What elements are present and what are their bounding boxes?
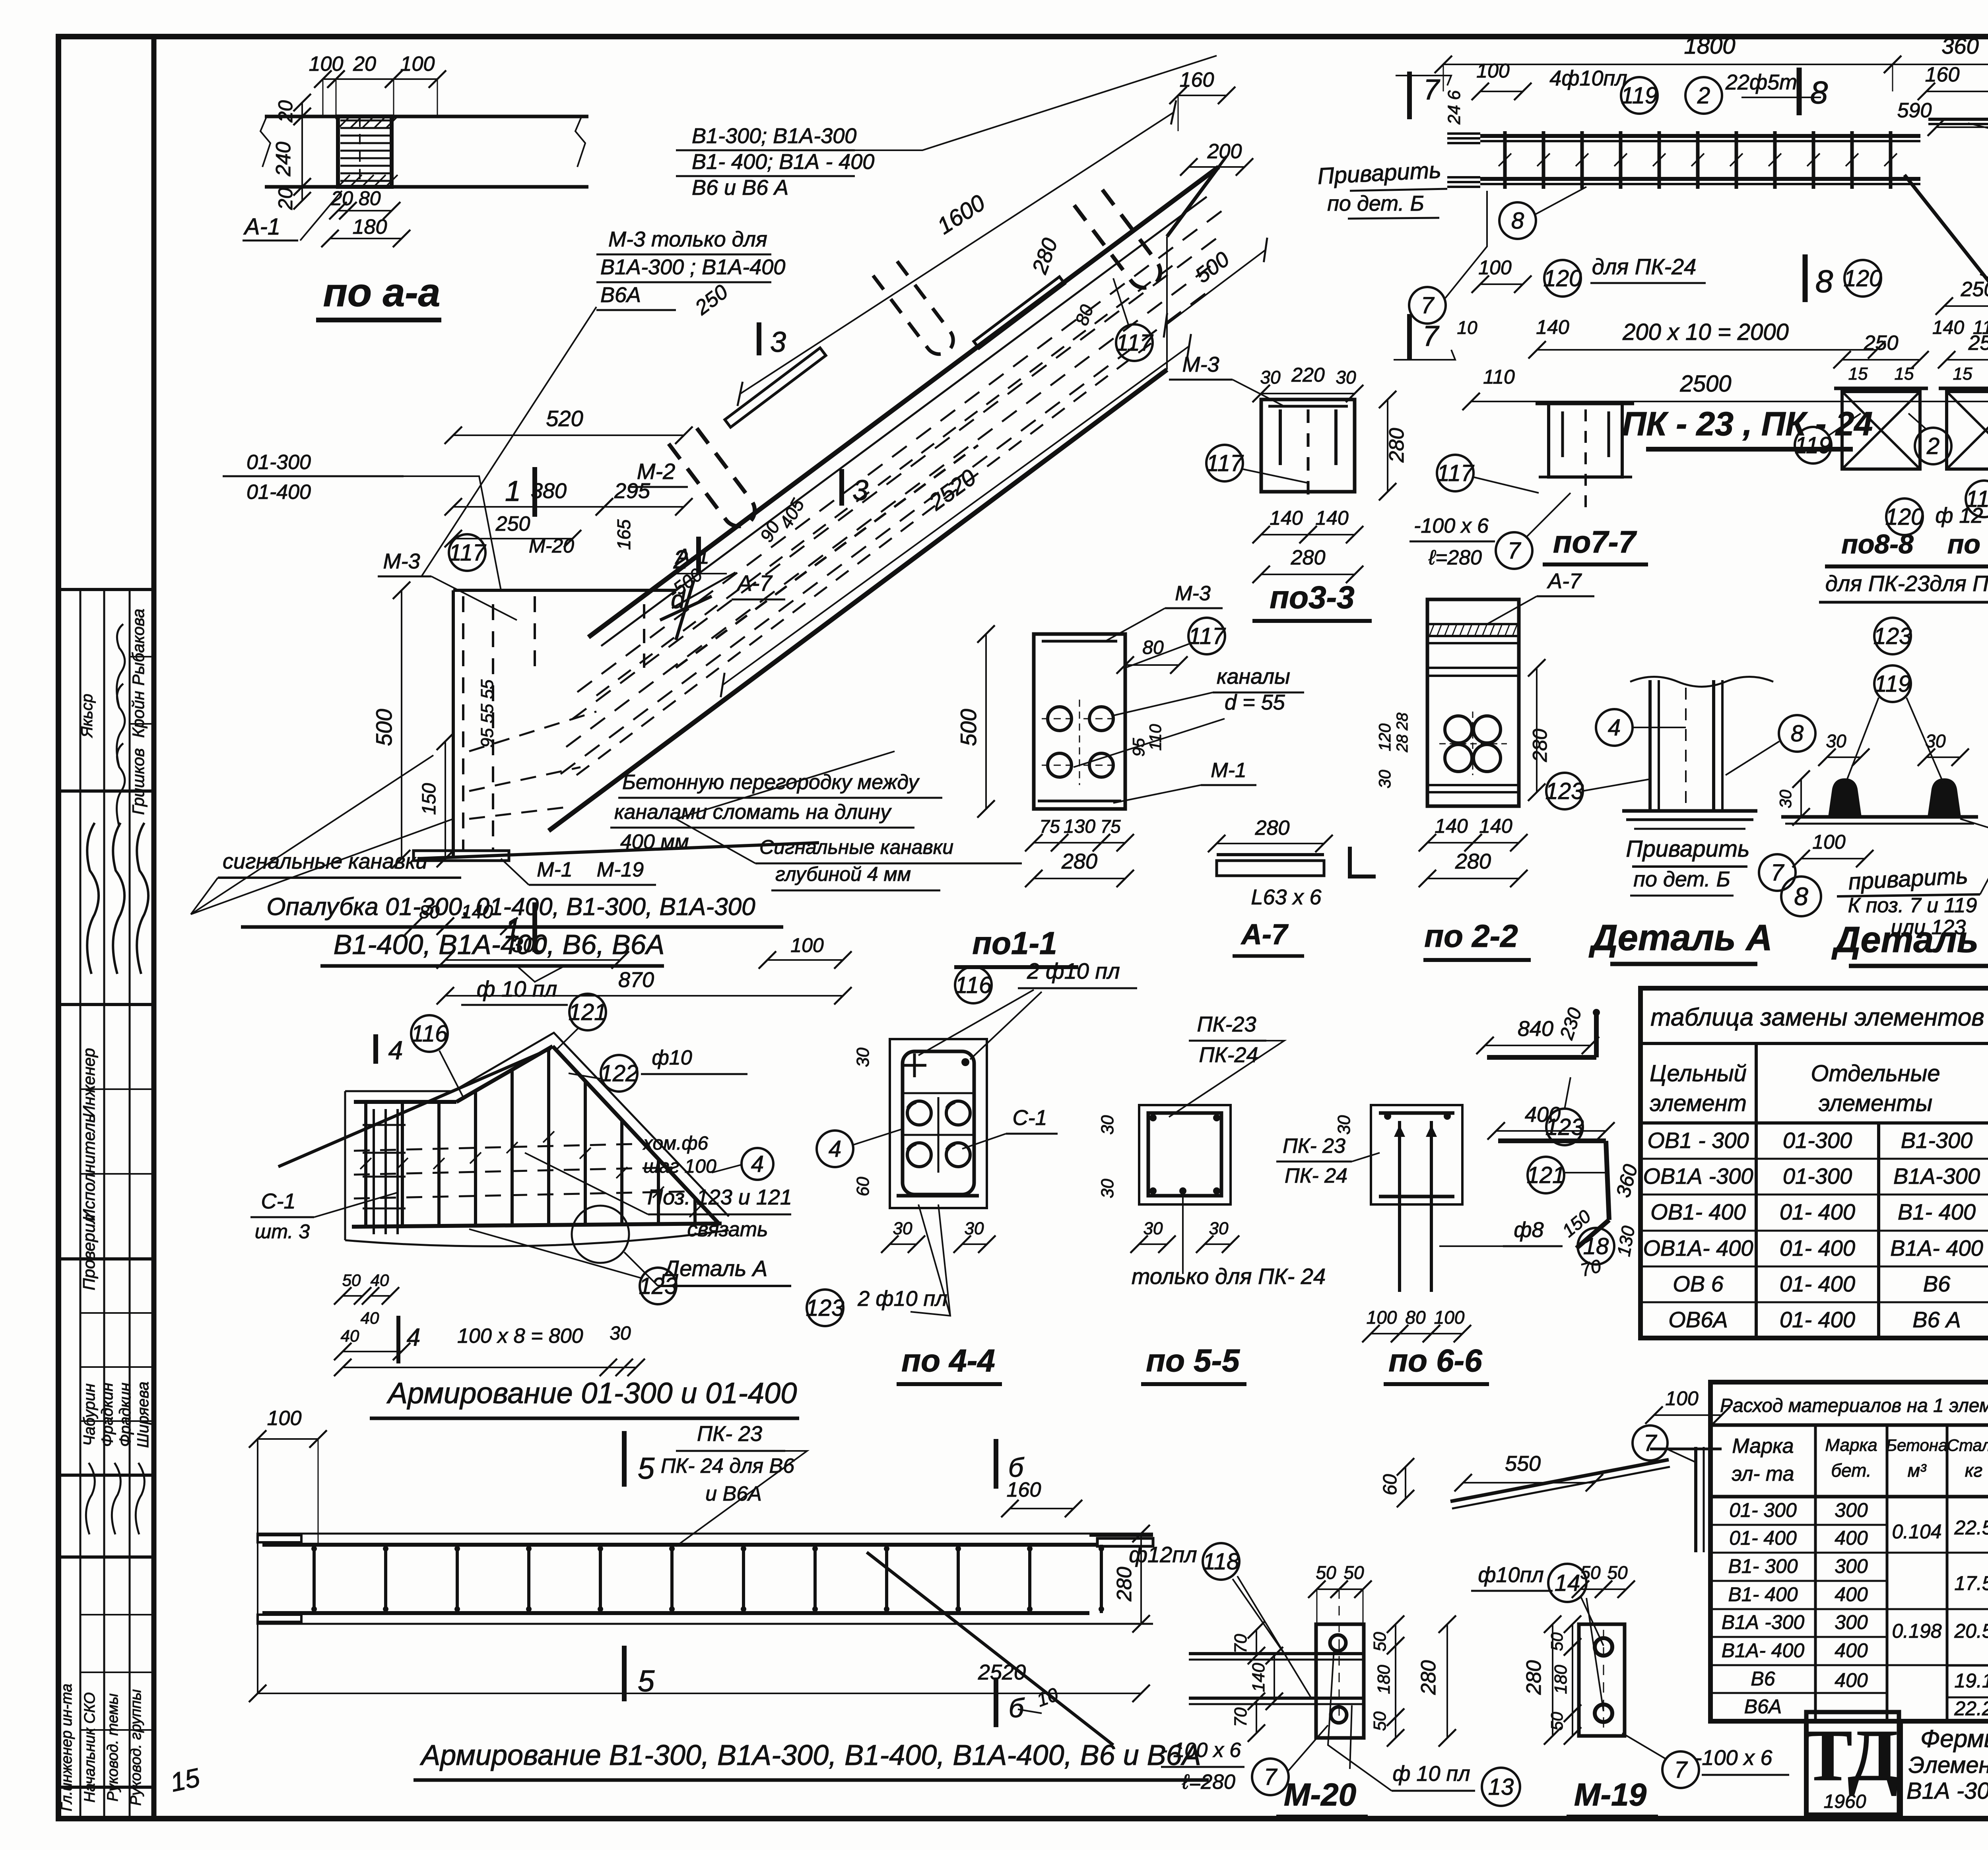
M-20 horizontal bars — [1189, 1652, 1363, 1655]
svg-text:В1-300; В1А-300: В1-300; В1А-300 — [692, 124, 856, 148]
svg-text:0.104: 0.104 — [1892, 1520, 1941, 1543]
section po8-8 (PK-23) box — [1842, 392, 1920, 469]
sidebar signatures — [117, 624, 125, 708]
svg-text:1: 1 — [505, 475, 521, 507]
section mark 3 on diagonal lower — [839, 469, 844, 506]
svg-text:01- 400: 01- 400 — [1780, 1271, 1855, 1296]
svg-text:Марка: Марка — [1732, 1435, 1794, 1458]
circle 122 + f10 — [601, 1055, 637, 1092]
po4-4 2f10pl bottom + circle 123 — [807, 1290, 843, 1326]
svg-text:30: 30 — [1260, 367, 1281, 388]
svg-text:4: 4 — [829, 1136, 841, 1162]
svg-text:М-3: М-3 — [1175, 582, 1211, 605]
svg-text:20: 20 — [353, 52, 376, 76]
svg-text:118: 118 — [1203, 1549, 1239, 1575]
svg-text:1960: 1960 — [1824, 1791, 1866, 1812]
svg-text:140: 140 — [1435, 815, 1468, 837]
svg-text:глубиной 4 мм: глубиной 4 мм — [775, 863, 911, 885]
bent bar 121 (400/360/150/130/70) — [1498, 1138, 1606, 1143]
svg-text:по а-а: по а-а — [323, 270, 440, 315]
svg-text:ф8: ф8 — [1514, 1218, 1543, 1242]
section po2-2 box — [1427, 599, 1519, 806]
svg-text:по 6-6: по 6-6 — [1388, 1343, 1482, 1378]
diagonal beam top edge — [588, 167, 1219, 637]
svg-text:250: 250 — [691, 280, 732, 320]
svg-text:360: 360 — [1612, 1162, 1642, 1200]
svg-text:Гришков: Гришков — [129, 748, 148, 815]
svg-text:300: 300 — [1835, 1555, 1868, 1577]
svg-text:7: 7 — [1508, 538, 1522, 564]
svg-text:140: 140 — [1932, 317, 1964, 338]
svg-text:В1А-300 ; В1А-400: В1А-300 ; В1А-400 — [600, 255, 785, 279]
PK beam rungs — [1503, 131, 1507, 189]
svg-text:1600: 1600 — [933, 190, 990, 239]
long beam right corner angle — [1089, 1534, 1153, 1537]
svg-text:100: 100 — [1478, 256, 1512, 279]
svg-text:13: 13 — [1488, 1774, 1514, 1800]
svg-text:С-1: С-1 — [261, 1189, 295, 1213]
svg-text:180: 180 — [1374, 1665, 1394, 1694]
svg-text:280: 280 — [1255, 816, 1290, 840]
svg-text:01- 400: 01- 400 — [1780, 1199, 1855, 1224]
svg-text:100 х 8 = 800: 100 х 8 = 800 — [457, 1324, 583, 1348]
svg-text:180: 180 — [353, 215, 387, 239]
svg-text:100: 100 — [1665, 1387, 1699, 1410]
po3-3 dim 280 right — [1387, 399, 1388, 492]
svg-text:кг: кг — [1965, 1460, 1982, 1481]
dim 80 140 — [414, 925, 445, 927]
detail A circle 4 — [1596, 709, 1633, 746]
armir 01 dashed horizontals — [354, 1144, 650, 1151]
svg-text:400: 400 — [1835, 1527, 1868, 1549]
opalubka node: diagonal dashed stubs — [643, 604, 645, 676]
armir 01 bottom chord — [352, 1224, 722, 1227]
armir 01 left mesh C-1 — [373, 1109, 375, 1234]
svg-text:50: 50 — [1607, 1562, 1628, 1583]
svg-text:2 ф10 пл: 2 ф10 пл — [1027, 958, 1120, 983]
upper weld plate on diagonal (pos 13) — [725, 348, 826, 427]
svg-text:19.1: 19.1 — [1954, 1670, 1988, 1692]
po4-4 circle 4 + C-1 — [817, 1131, 853, 1167]
po4-4 2f10pl top + circle 116 — [955, 967, 992, 1003]
svg-text:100: 100 — [1476, 60, 1510, 82]
svg-text:100: 100 — [1434, 1307, 1465, 1328]
po2-2 channels (4 circles clustered) — [1445, 716, 1472, 743]
svg-text:50: 50 — [1370, 1711, 1390, 1731]
long beam rungs — [313, 1545, 316, 1613]
M-19 plate — [1579, 1624, 1625, 1736]
po4-4 bottom bar — [897, 1194, 979, 1198]
svg-text:ℓ=280: ℓ=280 — [1182, 1770, 1235, 1794]
detail A: squiggle top — [1630, 677, 1773, 687]
svg-text:150: 150 — [419, 783, 440, 815]
svg-text:121: 121 — [1527, 1162, 1565, 1188]
svg-text:7: 7 — [1771, 860, 1785, 886]
detail A circle zone — [572, 1206, 629, 1263]
svg-text:120: 120 — [1844, 266, 1882, 291]
svg-text:4: 4 — [388, 1036, 403, 1065]
svg-text:Инженер: Инженер — [80, 1048, 98, 1117]
svg-text:Чабурин: Чабурин — [81, 1383, 98, 1446]
svg-text:300: 300 — [1835, 1611, 1868, 1633]
detail B: base plate line — [1781, 815, 1978, 819]
po3-3 circle 117 — [1206, 445, 1243, 481]
svg-text:590: 590 — [1897, 99, 1932, 122]
svg-text:5: 5 — [638, 1452, 655, 1485]
dim 100 20 100 above po a-a — [323, 78, 336, 80]
svg-text:130: 130 — [1613, 1224, 1639, 1258]
svg-text:250: 250 — [495, 512, 530, 535]
svg-text:160: 160 — [1925, 63, 1960, 86]
long beam bottom chord bar — [262, 1611, 1089, 1615]
long beam left end plates — [258, 1535, 301, 1542]
svg-text:360: 360 — [1941, 33, 1978, 58]
svg-text:Поз. 123 и 121: Поз. 123 и 121 — [647, 1185, 792, 1209]
svg-text:15: 15 — [1953, 364, 1972, 384]
svg-text:7: 7 — [1264, 1764, 1278, 1790]
opalubka node: top horizontal line — [453, 589, 676, 592]
svg-text:200 х 10 = 2000: 200 х 10 = 2000 — [1622, 319, 1789, 345]
opalubka node: inner dashed verticals — [462, 596, 464, 851]
svg-text:по 5-5: по 5-5 — [1146, 1343, 1240, 1378]
svg-text:22.2: 22.2 — [1954, 1697, 1988, 1720]
svg-text:117: 117 — [1116, 330, 1154, 356]
svg-text:01- 400: 01- 400 — [1780, 1235, 1855, 1260]
svg-text:В1- 400; В1А - 400: В1- 400; В1А - 400 — [692, 150, 874, 174]
svg-text:К поз. 7 и 119: К поз. 7 и 119 — [1848, 894, 1977, 917]
svg-text:и В6А: и В6А — [705, 1482, 762, 1505]
svg-text:122: 122 — [600, 1061, 639, 1086]
svg-text:В6: В6 — [1923, 1271, 1951, 1296]
svg-text:8: 8 — [1815, 264, 1833, 299]
svg-text:30: 30 — [1336, 367, 1356, 388]
svg-text:200: 200 — [1207, 140, 1242, 163]
svg-text:119: 119 — [1874, 671, 1911, 697]
svg-text:70: 70 — [1231, 1707, 1250, 1727]
svg-text:ТД: ТД — [1803, 1715, 1898, 1796]
angle L63x6 sketch — [1217, 853, 1324, 856]
long beam top edge — [256, 1533, 1153, 1535]
svg-text:В6 А: В6 А — [1912, 1307, 1961, 1332]
dim 20 80 under po a-a — [338, 210, 348, 211]
armir 01 falling top chord — [553, 1046, 719, 1224]
svg-text:100: 100 — [267, 1407, 302, 1430]
po4-4 inner stirrup — [903, 1051, 974, 1195]
svg-text:ОВ1- 400: ОВ1- 400 — [1650, 1199, 1746, 1224]
svg-text:Начальник СКО: Начальник СКО — [82, 1692, 98, 1802]
svg-text:ℓ=280: ℓ=280 — [1428, 546, 1482, 569]
svg-text:117: 117 — [1437, 460, 1475, 486]
svg-text:А-7: А-7 — [736, 570, 773, 595]
section po5-5 outer box — [1139, 1105, 1231, 1204]
hooks (dashed U bars) in diagonal beam — [669, 425, 761, 533]
svg-text:123: 123 — [806, 1295, 845, 1321]
svg-text:ПК-23: ПК-23 — [1197, 1012, 1256, 1036]
long beam diagonal strike — [867, 1552, 1113, 1745]
svg-text:280: 280 — [1455, 849, 1491, 873]
svg-text:сигнальные канавки: сигнальные канавки — [223, 849, 427, 873]
dim 200 at top end — [1189, 166, 1244, 168]
section po4-4 outer box — [890, 1039, 987, 1208]
svg-text:м³: м³ — [1908, 1460, 1927, 1481]
dim 300 — [445, 959, 620, 961]
svg-text:60: 60 — [1380, 1474, 1401, 1495]
po8-8b circles — [1966, 481, 1988, 517]
svg-text:500: 500 — [956, 709, 981, 746]
svg-text:400: 400 — [1835, 1583, 1868, 1606]
svg-text:180: 180 — [1551, 1665, 1571, 1694]
section po a-a : beam top line — [265, 115, 588, 118]
svg-text:20 80: 20 80 — [330, 187, 381, 209]
svg-text:95: 95 — [1129, 738, 1148, 756]
svg-text:б: б — [1008, 1452, 1025, 1483]
po5-5 stirrup — [1148, 1113, 1221, 1196]
dim 1600 along beam — [728, 100, 1186, 406]
svg-text:50: 50 — [1547, 1632, 1566, 1651]
svg-text:М-2: М-2 — [637, 459, 675, 484]
title block frame — [1806, 1719, 1988, 1724]
svg-text:280: 280 — [1113, 1567, 1136, 1602]
svg-text:для ПК-24: для ПК-24 — [1592, 254, 1697, 279]
svg-text:24 6: 24 6 — [1444, 90, 1464, 125]
svg-text:В1А -300 , В1- 400 , В1А - 4: В1А -300 , В1- 400 , В1А - 400 , В6 , В6… — [1906, 1778, 1988, 1804]
svg-text:7: 7 — [1674, 1757, 1688, 1783]
svg-text:ф12пл: ф12пл — [1129, 1542, 1197, 1567]
svg-text:160: 160 — [1180, 68, 1214, 91]
diagonal beam end cap — [1167, 167, 1219, 237]
svg-text:120: 120 — [1375, 723, 1394, 751]
svg-text:2520: 2520 — [978, 1660, 1026, 1684]
dim 500 left side — [401, 590, 402, 859]
sidebar names 2 — [80, 1312, 154, 1314]
svg-text:М-3 только для: М-3 только для — [608, 227, 767, 251]
svg-text:бет.: бет. — [1831, 1460, 1872, 1481]
opalubka node: bottom line — [417, 843, 819, 859]
svg-text:М-19: М-19 — [597, 858, 644, 881]
svg-text:Приварить: Приварить — [1317, 157, 1442, 189]
svg-text:280: 280 — [1385, 428, 1408, 463]
circle 120 + dlya PK-24 — [1544, 260, 1581, 297]
svg-text:эл- та: эл- та — [1732, 1462, 1794, 1485]
svg-text:50: 50 — [1343, 1562, 1364, 1583]
svg-text:400: 400 — [1525, 1103, 1561, 1127]
svg-text:В1А -300: В1А -300 — [1722, 1611, 1805, 1633]
svg-text:L63 х 6: L63 х 6 — [1251, 885, 1322, 909]
svg-text:01-400: 01-400 — [247, 481, 311, 504]
dim 100 — [767, 959, 843, 961]
svg-text:7: 7 — [1423, 74, 1441, 106]
po4-4 channels — [907, 1101, 931, 1125]
long beam top chord bar — [262, 1543, 1097, 1547]
armir 01 section mark 4 top — [373, 1034, 378, 1064]
svg-text:20: 20 — [274, 100, 297, 123]
svg-text:840: 840 — [1518, 1017, 1553, 1041]
inner content border line — [151, 37, 157, 1819]
PK beam right corner angle — [1928, 118, 1988, 121]
M-20 plate — [1316, 1624, 1364, 1738]
svg-text:100: 100 — [400, 52, 435, 76]
svg-text:120: 120 — [1543, 266, 1582, 291]
dim 180 under po a-a — [330, 238, 402, 239]
svg-text:120: 120 — [1885, 504, 1924, 530]
svg-text:Элементы ферм 01-300, 01-400.: Элементы ферм 01-300, 01-400. В1-300, — [1908, 1752, 1988, 1778]
bent bar 123 (840/230) — [1487, 1055, 1596, 1060]
svg-text:Деталь Б: Деталь Б — [1831, 919, 1988, 960]
svg-text:Фрадкин: Фрадкин — [99, 1383, 116, 1447]
svg-text:300: 300 — [1835, 1499, 1868, 1521]
svg-text:ПК- 23: ПК- 23 — [1283, 1134, 1345, 1158]
svg-text:400: 400 — [1835, 1669, 1868, 1691]
svg-text:ф 12 пл: ф 12 пл — [1935, 504, 1988, 527]
svg-text:М-3: М-3 — [1182, 353, 1219, 376]
svg-text:2: 2 — [1697, 83, 1710, 109]
svg-text:100: 100 — [790, 934, 824, 956]
svg-text:7: 7 — [1644, 1430, 1658, 1456]
svg-text:-100 х 6: -100 х 6 — [1414, 514, 1489, 537]
svg-text:по дет. Б: по дет. Б — [1327, 192, 1424, 215]
svg-text:15: 15 — [168, 1763, 202, 1798]
svg-text:ОВ1А -300: ОВ1А -300 — [1643, 1164, 1753, 1189]
PK beam right diagonal strike (pos 16) — [1905, 175, 1988, 333]
section mark 3 on diagonal upper — [757, 322, 761, 355]
po2-2 top hatched strip — [1427, 623, 1519, 625]
svg-text:7: 7 — [1421, 293, 1435, 318]
svg-text:30: 30 — [1375, 770, 1394, 788]
dim 250 — [453, 538, 573, 539]
svg-text:30: 30 — [1826, 731, 1846, 751]
svg-text:1800: 1800 — [1684, 33, 1735, 59]
svg-text:01- 400: 01- 400 — [1780, 1307, 1855, 1332]
svg-text:4: 4 — [407, 1324, 420, 1351]
svg-text:870: 870 — [618, 968, 654, 992]
svg-text:4: 4 — [1608, 715, 1621, 741]
svg-text:ф 10 пл: ф 10 пл — [1392, 1762, 1470, 1786]
svg-text:Бетона: Бетона — [1886, 1436, 1948, 1454]
svg-text:15: 15 — [1848, 364, 1868, 384]
svg-text:15: 15 — [1895, 364, 1914, 384]
po a-a break marks — [260, 115, 270, 167]
svg-text:В6А: В6А — [1744, 1695, 1782, 1718]
svg-text:30: 30 — [1143, 1219, 1163, 1238]
section mark 1 bottom — [532, 902, 537, 952]
dim 20 240 20 left of po a-a — [301, 103, 303, 116]
section po a-a : hatched core block — [338, 116, 392, 187]
svg-text:ОВ6А: ОВ6А — [1668, 1307, 1728, 1332]
section po8-8 (PK-24) box — [1947, 392, 1988, 469]
section mark 2 — [696, 537, 701, 573]
svg-text:В6 и В6 А: В6 и В6 А — [692, 176, 788, 200]
svg-text:22ф5т: 22ф5т — [1725, 70, 1797, 94]
svg-text:таблица замены элементов: таблица замены элементов — [1650, 1004, 1984, 1031]
svg-text:70: 70 — [1231, 1634, 1250, 1653]
svg-text:280: 280 — [1027, 235, 1062, 277]
svg-text:Исполнитель: Исполнитель — [80, 1114, 98, 1221]
detail A: vertical plates — [1648, 680, 1652, 811]
svg-text:2: 2 — [1926, 433, 1939, 459]
svg-text:20.5: 20.5 — [1954, 1620, 1988, 1642]
svg-text:117: 117 — [1188, 623, 1226, 649]
svg-text:20: 20 — [274, 188, 297, 210]
dim 520 — [453, 434, 684, 436]
svg-text:хом.ф6: хом.ф6 — [643, 1133, 709, 1154]
svg-text:28: 28 — [1394, 712, 1411, 731]
svg-text:250: 250 — [1961, 278, 1988, 301]
section po6-6 outer box — [1371, 1105, 1462, 1204]
diagonal beam bottom edge — [549, 370, 1167, 831]
svg-text:30: 30 — [965, 1219, 984, 1238]
svg-text:550: 550 — [1505, 1452, 1541, 1476]
dashed bars lower left of diagonal — [873, 259, 959, 360]
svg-text:Армирование 01-300 и 01-400: Армирование 01-300 и 01-400 — [386, 1377, 797, 1410]
svg-text:30: 30 — [1098, 1115, 1117, 1134]
svg-text:10: 10 — [1457, 317, 1477, 338]
svg-text:М-1: М-1 — [537, 858, 573, 881]
svg-text:123: 123 — [1873, 623, 1912, 649]
svg-text:В1А-300: В1А-300 — [1893, 1164, 1980, 1189]
svg-text:ПК - 23 , ПК - 24: ПК - 23 , ПК - 24 — [1622, 405, 1873, 442]
svg-text:250: 250 — [1968, 332, 1988, 355]
svg-text:116: 116 — [411, 1021, 448, 1047]
section mark 8 bottom + circle 120 — [1803, 254, 1808, 302]
svg-text:400 мм: 400 мм — [620, 830, 689, 853]
svg-text:95 55 55: 95 55 55 — [478, 679, 497, 748]
svg-text:01-300: 01-300 — [1783, 1164, 1852, 1189]
svg-text:3: 3 — [852, 475, 868, 506]
svg-text:шт. 3: шт. 3 — [255, 1220, 310, 1243]
svg-text:каналами сломать на длину: каналами сломать на длину — [614, 801, 892, 824]
svg-text:Бетонную перегородку между: Бетонную перегородку между — [622, 771, 920, 794]
svg-text:М-19: М-19 — [1574, 1777, 1647, 1812]
svg-text:Сигнальные канавки: Сигнальные канавки — [759, 836, 953, 858]
svg-text:110: 110 — [1146, 724, 1165, 751]
po1-1 channel circles — [1048, 707, 1072, 731]
section po3-3 box — [1261, 399, 1355, 492]
svg-text:121: 121 — [569, 999, 607, 1025]
PK-23/PK-24 beam top chord — [1480, 134, 1920, 138]
svg-text:117: 117 — [1206, 450, 1244, 476]
svg-text:40: 40 — [361, 1309, 379, 1327]
circle 117 on diagonal — [1116, 324, 1153, 361]
svg-text:119: 119 — [1795, 432, 1831, 458]
materials table frame — [1710, 1382, 1988, 1721]
svg-text:40: 40 — [371, 1271, 389, 1290]
svg-text:ОВ 6: ОВ 6 — [1673, 1271, 1724, 1296]
svg-text:Фрадкин: Фрадкин — [116, 1383, 134, 1447]
section marks 7 left column — [1407, 72, 1412, 119]
opalubka node: left vertical edge — [452, 590, 455, 859]
svg-text:по1-1: по1-1 — [972, 925, 1057, 961]
svg-text:ф10: ф10 — [652, 1046, 692, 1069]
long beam section 5 markers — [622, 1431, 627, 1487]
svg-text:Рыбакова: Рыбакова — [129, 609, 148, 685]
svg-text:шаг 100: шаг 100 — [643, 1156, 716, 1177]
svg-text:по 4-4: по 4-4 — [901, 1343, 995, 1378]
svg-text:3: 3 — [770, 326, 786, 358]
svg-text:Руковод. группы: Руковод. группы — [128, 1689, 144, 1805]
svg-text:б: б — [1009, 1693, 1025, 1723]
svg-text:ОВ1 - 300: ОВ1 - 300 — [1647, 1128, 1749, 1153]
svg-text:250: 250 — [1864, 332, 1899, 355]
svg-text:по 2-2: по 2-2 — [1424, 918, 1518, 954]
svg-text:М-1: М-1 — [1211, 759, 1246, 782]
svg-text:30: 30 — [1334, 1115, 1354, 1134]
circle 7 left — [1409, 287, 1446, 324]
svg-text:01-300: 01-300 — [1783, 1128, 1852, 1153]
detail B privarit text — [1781, 877, 1821, 916]
svg-text:123: 123 — [1545, 778, 1584, 804]
svg-text:01-300: 01-300 — [247, 451, 311, 474]
svg-text:ф 10 пл: ф 10 пл — [477, 976, 557, 1001]
